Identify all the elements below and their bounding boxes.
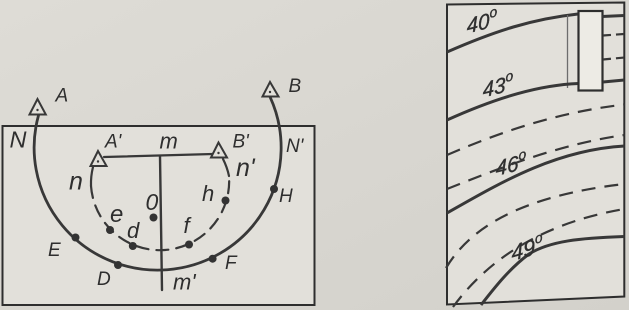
svg-text:A: A bbox=[55, 86, 69, 107]
svg-text:D: D bbox=[97, 269, 111, 290]
svg-text:N': N' bbox=[286, 136, 305, 157]
svg-text:0: 0 bbox=[146, 189, 159, 215]
svg-text:n': n' bbox=[236, 154, 256, 182]
svg-text:m: m bbox=[160, 129, 178, 154]
svg-text:B': B' bbox=[233, 132, 251, 153]
svg-text:e: e bbox=[110, 201, 123, 228]
svg-text:N: N bbox=[10, 127, 27, 153]
svg-text:H: H bbox=[279, 186, 293, 207]
svg-text:E: E bbox=[48, 240, 61, 261]
svg-text:F: F bbox=[225, 253, 238, 274]
svg-text:n: n bbox=[69, 168, 83, 196]
svg-text:d: d bbox=[127, 218, 140, 243]
svg-text:m': m' bbox=[173, 270, 196, 295]
svg-text:h: h bbox=[202, 181, 214, 206]
svg-text:B: B bbox=[289, 76, 302, 97]
svg-text:A': A' bbox=[104, 132, 123, 153]
